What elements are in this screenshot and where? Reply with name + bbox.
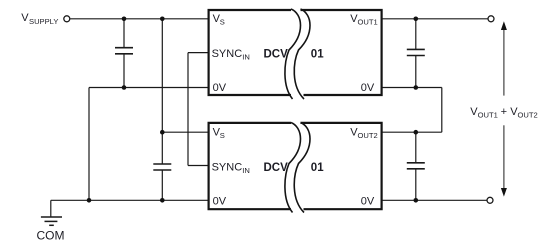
converter U1 body right piece [294,9,381,99]
wire V_SUPPLY horizontal [70,18,209,20]
node COM/0V drop [87,198,92,203]
wire lower VS stub [162,131,209,133]
svg-text:OUT2: OUT2 [518,111,538,120]
svg-text:+: + [501,106,507,118]
node COM/C2 [160,198,165,203]
node C3/VOUT1 [414,17,419,22]
wire top SYNC stub [188,52,210,54]
svg-text:OUT1: OUT1 [478,111,498,120]
capacitor C4 [407,132,425,200]
label U1 VOUT1 [350,13,377,27]
node supply/branch [160,17,165,22]
svg-text:S: S [220,18,225,27]
label U2 VOUT2 [350,126,377,140]
svg-text:IN: IN [242,166,250,175]
converter U2 body right piece [294,123,381,213]
node supply/C1 [122,17,127,22]
capacitor C1 [115,19,133,88]
wire bottom 0V to terminal [381,199,487,201]
node C3/0V [414,85,419,90]
svg-text:IN: IN [242,53,250,62]
wire top 0V left [89,87,210,89]
svg-text:0V: 0V [361,196,375,208]
terminal VOUT bottom [487,197,493,203]
wire COM rail [51,199,210,201]
ground [41,217,62,225]
capacitor C2 [153,132,171,200]
svg-text:SYNC: SYNC [212,162,243,174]
wire ground drop [50,200,52,216]
converter U1 body left piece [209,9,301,99]
converter U2 body left piece [209,123,301,213]
wire lower SYNC stub [188,165,210,167]
arrow VOUT stack [503,28,505,191]
label VSUPPLY [21,12,58,26]
node C1/0V [122,85,127,90]
capacitor C3 [407,19,425,88]
svg-text:01: 01 [311,48,324,60]
label U1 SYNCIN [212,48,250,62]
svg-text:S: S [220,131,225,140]
wire vertical 0V-to-COM [88,88,90,201]
terminal VOUT top [488,16,494,22]
svg-text:COM: COM [37,229,65,243]
svg-text:SYNC: SYNC [212,48,243,60]
label U2 VS [213,126,225,140]
wire series link vertical [441,88,443,133]
svg-text:DCV: DCV [264,48,289,60]
node C4/0V2 [414,198,419,203]
svg-text:0V: 0V [361,82,375,94]
terminal VSUPPLY [64,16,70,22]
svg-text:OUT1: OUT1 [358,18,378,27]
svg-text:01: 01 [311,162,324,174]
wire top 0V right [381,87,442,89]
wire supply-to-lower-VS vertical [161,19,163,132]
svg-text:OUT2: OUT2 [358,131,378,140]
wire SYNC interconnect vertical [187,53,189,166]
label U2 SYNCIN [212,162,250,176]
node C4/VOUT2 [414,130,419,135]
wire VOUT2 stub [381,131,442,133]
svg-text:DCV: DCV [264,162,289,174]
svg-text:0V: 0V [213,82,227,94]
wire VOUT1 to terminal [381,18,488,20]
node VS2/C2 [160,130,165,135]
svg-text:SUPPLY: SUPPLY [29,17,58,26]
label U1 VS [213,13,225,27]
label VOUT1 + VOUT2 [470,106,537,120]
svg-text:0V: 0V [213,196,227,208]
